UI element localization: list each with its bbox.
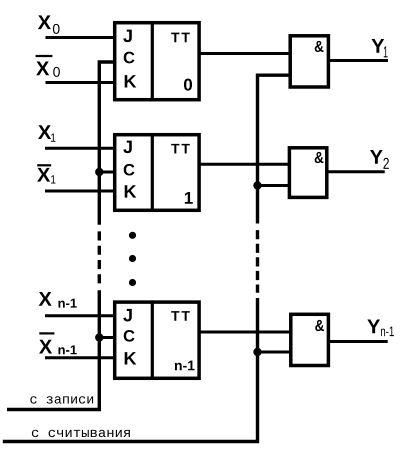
ellipsis dots between register stages xyxy=(129,232,136,286)
symbol label TT xyxy=(171,33,190,43)
flip-flop TT1 xyxy=(115,133,199,212)
net label write (s zapisi) xyxy=(30,396,93,403)
wire write bus lower segment and horizontal write line xyxy=(7,290,99,409)
wire write bus to C input of flip-flop TTn-1 xyxy=(99,336,115,339)
gate function label & xyxy=(315,320,324,331)
AND gate G2 xyxy=(289,148,326,198)
symbol label TT xyxy=(171,311,190,321)
pin label K xyxy=(125,352,137,364)
wire /Xn-1 to K input of flip-flop TTn-1 xyxy=(45,356,115,359)
pin label K xyxy=(125,75,137,87)
junction dot write bus to C of TTn-1 xyxy=(95,333,103,341)
junction dot read bus to G3 second input xyxy=(253,348,261,356)
input label X1 xyxy=(38,125,55,142)
pin label J xyxy=(123,141,132,154)
input label /Xn-1 xyxy=(39,333,77,354)
wire G1 output to Y1 xyxy=(329,59,388,62)
wire read bus to G3 second input xyxy=(258,351,292,354)
wire flip-flop TT0 output to AND gate G1 xyxy=(199,52,290,55)
pin label J xyxy=(123,30,132,43)
AND gate G1 xyxy=(290,36,328,87)
AND gate G1 body xyxy=(290,36,328,87)
flip-flop TTn-1 body xyxy=(115,302,199,378)
pin label K xyxy=(125,185,137,197)
wire write bus vertical dashed segment xyxy=(98,231,101,283)
stage number 0 xyxy=(184,79,192,91)
wire write bus to C input of flip-flop TT1 xyxy=(99,171,115,174)
wire flip-flop TTn-1 output to AND gate G3 xyxy=(199,331,290,334)
net label read (s schityvaniya) xyxy=(32,430,130,437)
wire G2 output to Y2 xyxy=(327,170,385,173)
wire X1 to J input of flip-flop TT1 xyxy=(45,147,115,150)
gate function label & xyxy=(315,41,324,52)
input label Xn-1 xyxy=(39,292,77,308)
pin label J xyxy=(123,309,132,322)
input label /X0 xyxy=(36,56,60,77)
stage number 1 xyxy=(185,192,193,204)
pin label C xyxy=(124,52,135,64)
flip-flop TT0 body xyxy=(115,23,199,100)
junction dot write bus to C of TT1 xyxy=(95,168,103,176)
flip-flop TT0 xyxy=(115,21,199,101)
gate function label & xyxy=(315,152,324,163)
wire read bus: top segment to G1 second input xyxy=(258,75,291,223)
flip-flop TT1 body xyxy=(115,135,199,211)
wire Xn-1 to J input of flip-flop TTn-1 xyxy=(45,314,115,317)
wire X0 to J input of flip-flop TT0 xyxy=(46,36,116,39)
wire read bus to G2 second input xyxy=(258,184,291,187)
stage number n-1 xyxy=(175,361,195,371)
output label Y1 xyxy=(372,39,388,57)
output label Yn-1 xyxy=(367,320,393,337)
input label X0 xyxy=(38,15,60,34)
wire flip-flop TT1 output to AND gate G2 xyxy=(199,163,290,166)
wire read bus vertical dashed segment xyxy=(256,230,259,293)
wire /X1 to K input of flip-flop TT1 xyxy=(45,190,115,193)
symbol label TT xyxy=(171,144,190,154)
AND gate G2 body xyxy=(289,148,326,198)
wire /X0 to K input of flip-flop TT0 xyxy=(46,81,116,84)
input label /X1 xyxy=(37,165,55,183)
pin label C xyxy=(124,164,135,176)
output label Y2 xyxy=(370,150,389,169)
flip-flop TTn-1 xyxy=(115,300,199,380)
pin label C xyxy=(124,330,135,342)
junction dot read bus to G2 second input xyxy=(253,181,261,189)
wire write bus: branch to C input of flip-flop TT0, vertical bus upper segment xyxy=(99,62,114,225)
AND gate G3 xyxy=(291,314,329,365)
wire read bus lower segment and horizontal read line xyxy=(3,298,258,442)
AND gate G3 body xyxy=(291,314,329,365)
wire G3 output to Yn-1 xyxy=(329,340,388,343)
